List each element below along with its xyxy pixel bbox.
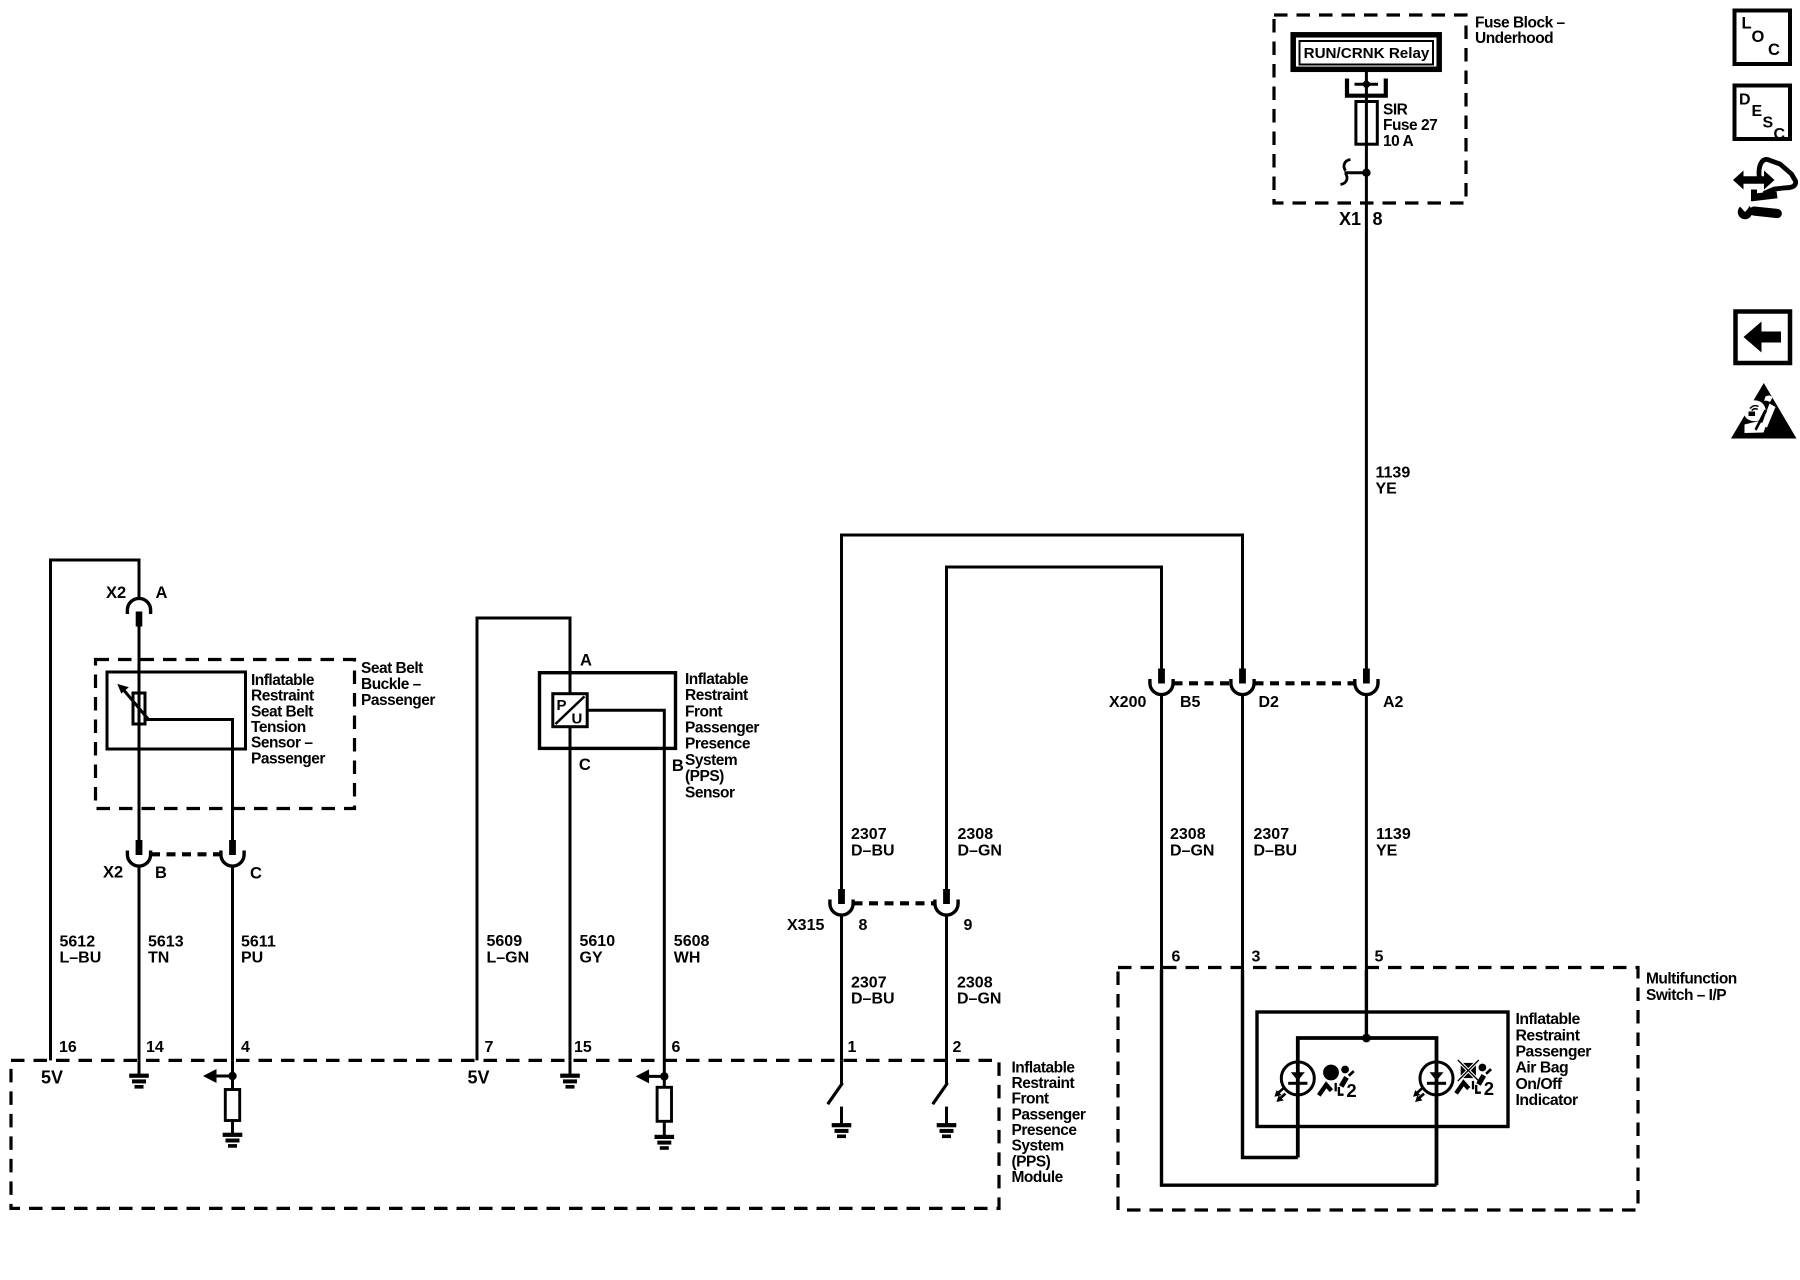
svg-text:On/Off: On/Off [1516,1076,1563,1093]
inline dashed connector line X200 D2-A2 [1255,681,1355,685]
label SIR Fuse 27 10 A [1383,101,1437,150]
svg-text:1139: 1139 [1376,464,1411,481]
label 5610 GY [580,933,616,967]
svg-text:3: 3 [1252,949,1261,966]
label 1139 YE upper [1376,464,1411,497]
svg-text:Restraint: Restraint [685,687,748,704]
svg-text:5610: 5610 [580,933,616,950]
wire 2308 D-GN from X315 9 to module pin 2 [945,915,948,1060]
fuse block - underhood dashed box [1274,15,1466,203]
svg-text:P: P [557,697,567,714]
label Fuse Block - Underhood [1475,15,1565,48]
airbag on icon [1319,1065,1357,1102]
svg-text:L–BU: L–BU [60,950,102,967]
svg-text:Fuse Block –: Fuse Block – [1475,15,1565,32]
svg-text:D–BU: D–BU [1254,843,1298,860]
svg-text:B5: B5 [1180,694,1201,711]
variable resistor (seat belt tension sensor) [117,684,148,724]
indicator box [1257,1012,1508,1127]
svg-text:Fuse 27: Fuse 27 [1383,117,1437,134]
svg-text:7: 7 [485,1039,494,1056]
wire 5613 TN from X2 B to module pin 14 [138,866,141,1060]
svg-text:Tension: Tension [251,719,306,736]
junction at fuse output [1362,169,1370,177]
ground at module pin 2 [937,1123,957,1138]
wire 5608 WH from P/U to module pin 6 [587,710,664,1060]
multifunction switch dashed box [1118,968,1638,1211]
switch to ground at module pin 1 [828,1060,843,1123]
fuse F27 (SIR Fuse 27 10A) [1356,102,1377,145]
svg-text:Seat Belt: Seat Belt [251,703,313,720]
svg-text:B: B [672,757,684,775]
svg-text:D–GN: D–GN [957,991,1001,1008]
wire 2307 D-BU from X315 8 up and over to X200 D2 [842,535,1243,889]
label 2307 D-BU below X315 [851,975,895,1008]
svg-text:Passenger: Passenger [1516,1044,1592,1061]
svg-text:Restraint: Restraint [1516,1027,1581,1044]
wire 5612 L-BU from module pin 16 up to X2 A [51,560,140,1060]
wire pin 6 to indicator lamp 2 [1162,970,1437,1185]
svg-text:2307: 2307 [851,975,887,992]
wire pin 3 to indicator lamp 1 [1243,970,1298,1158]
svg-text:D–BU: D–BU [851,991,895,1008]
svg-text:14: 14 [146,1039,164,1056]
label X1 8 [1339,209,1383,229]
svg-text:8: 8 [1373,209,1383,229]
svg-text:Passenger: Passenger [1012,1106,1086,1123]
icon DESC box [1735,86,1791,144]
svg-text:Inflatable: Inflatable [1516,1011,1581,1028]
svg-text:System: System [1012,1138,1064,1155]
svg-text:6: 6 [1172,949,1181,966]
svg-text:1139: 1139 [1376,826,1411,843]
svg-text:PU: PU [241,950,263,967]
connector X2 B [127,840,150,866]
svg-text:D–GN: D–GN [1170,843,1214,860]
svg-text:X315: X315 [787,917,824,934]
fuse clip holder [1347,79,1386,96]
svg-text:TN: TN [148,950,169,967]
inline dashed connector line X315 8-9 [854,901,936,905]
label 2308 D-GN at B5 [1170,826,1214,860]
svg-text:Seat Belt: Seat Belt [361,660,423,677]
inline dashed connector line X2 B-C [151,852,221,856]
svg-text:(PPS): (PPS) [1012,1153,1051,1170]
switch to ground at module pin 2 [933,1060,948,1123]
wire from X2 A into tension sensor [138,627,141,841]
svg-text:10 A: 10 A [1383,133,1413,150]
ground below resistor pin 6 [663,1121,666,1135]
connector X2 C [221,840,244,866]
wire 2307 D-BU from X315 8 to module pin 1 [840,915,843,1060]
svg-text:Passenger: Passenger [685,720,759,737]
svg-text:RUN/CRNK Relay: RUN/CRNK Relay [1304,45,1430,62]
connector X200 D2 [1231,669,1254,695]
svg-text:GY: GY [580,950,603,967]
ground below resistor pin 4 [231,1121,234,1134]
svg-text:(PPS): (PPS) [685,768,724,785]
svg-text:Air Bag: Air Bag [1516,1060,1569,1077]
svg-text:WH: WH [674,950,701,967]
svg-text:X1: X1 [1339,209,1361,229]
svg-text:System: System [685,752,737,769]
resistor at pin 6 [657,1087,671,1121]
svg-text:6: 6 [672,1039,681,1056]
svg-text:X2: X2 [103,864,123,882]
label X315 8 9 [787,917,973,934]
svg-text:2308: 2308 [958,826,994,843]
svg-text:L–GN: L–GN [487,950,530,967]
label X2 B C [103,864,262,883]
svg-text:C: C [1768,41,1780,59]
bus tap hook [1341,160,1367,185]
tension sensor box [107,672,246,749]
pressure sensor symbol P/U [553,694,587,728]
label 5611 PU [241,934,276,967]
svg-text:B: B [155,864,167,882]
svg-text:A: A [580,652,592,670]
icon back arrow box [1736,312,1791,364]
svg-text:D–BU: D–BU [851,843,895,860]
label 5612 L-BU [60,934,102,967]
connector X315 8 [830,889,853,915]
wire through PPS sensor [569,673,572,1061]
svg-text:2307: 2307 [851,826,887,843]
svg-text:E: E [1752,103,1763,120]
wire fuse to X1 pin 8 [1365,144,1368,203]
svg-text:Front: Front [685,703,722,720]
svg-text:C: C [1774,126,1786,143]
seat belt buckle dashed box [96,660,355,809]
icon adjust (double arrow, glove and wrench) [1733,159,1796,219]
svg-text:A2: A2 [1383,694,1404,711]
wire relay to fuse [1365,72,1368,102]
LED indicator lamp 2 (off) [1413,1062,1453,1102]
relay K (RUN/CRNK Relay) [1293,35,1439,70]
label X200 B5 D2 A2 [1109,694,1404,711]
svg-text:A: A [156,584,168,602]
svg-text:Switch – I/P: Switch – I/P [1646,987,1726,1004]
wire 5609 L-GN from module pin 7 up to PPS sensor A [477,618,570,1060]
svg-text:5: 5 [1375,949,1384,966]
svg-text:YE: YE [1376,480,1398,497]
icon LOC box [1735,11,1791,65]
svg-text:5611: 5611 [241,934,276,951]
ground at module pin 14 [138,1060,141,1074]
svg-text:O: O [1752,28,1765,46]
junction at pin 5 bus [1362,1034,1371,1043]
svg-text:C: C [250,865,262,883]
label 1139 YE at A2 [1376,826,1411,860]
svg-text:Sensor: Sensor [685,784,735,801]
svg-text:D–GN: D–GN [958,843,1002,860]
wire 1139 YE from X200 A2 to switch pin 5 [1365,695,1368,970]
ground at module pin 1 [832,1123,852,1138]
svg-text:2307: 2307 [1254,826,1290,843]
svg-text:4: 4 [241,1039,250,1056]
svg-text:5609: 5609 [487,933,523,950]
svg-text:2308: 2308 [957,975,993,992]
svg-text:8: 8 [859,917,868,934]
label 5609 L-GN [487,933,530,967]
svg-text:5612: 5612 [60,934,96,951]
svg-text:Presence: Presence [1012,1122,1078,1139]
PPS sensor box [540,673,676,749]
svg-text:Passenger: Passenger [251,750,325,767]
svg-text:Inflatable: Inflatable [685,671,749,688]
wire 2308 D-GN from X200 B5 to switch pin 6 [1160,695,1163,970]
svg-text:Sensor –: Sensor – [251,735,313,752]
svg-text:U: U [572,710,583,727]
svg-text:Inflatable: Inflatable [1012,1059,1076,1076]
connector X315 9 [935,889,958,915]
icon airbag warning triangle [1731,383,1797,439]
inline dashed connector line X200 B5-D2 [1174,681,1232,685]
resistor at pin 4 [225,1090,239,1121]
wire 1139 YE from fuse block to X200 A2 [1365,203,1368,669]
svg-text:Multifunction: Multifunction [1646,970,1737,987]
svg-text:Passenger: Passenger [361,692,435,709]
svg-text:L: L [1742,15,1752,33]
svg-text:15: 15 [574,1039,592,1056]
label 5613 TN [148,934,184,967]
svg-text:X2: X2 [106,584,126,602]
svg-text:Indicator: Indicator [1516,1092,1579,1109]
label 2308 D-GN above X315 [958,826,1002,860]
connector X2 A [127,598,150,626]
wire wiper to X2 C [145,720,233,841]
svg-text:YE: YE [1376,843,1398,860]
svg-text:9: 9 [964,917,973,934]
wire pin 5 to indicator bus [1365,970,1368,1038]
svg-text:SIR: SIR [1383,101,1408,118]
wire 5611 PU from X2 C to module pin 4 [231,866,234,1060]
wire 2308 D-GN from X315 9 up and over to X200 B5 [947,567,1162,889]
svg-text:D2: D2 [1259,694,1280,711]
svg-text:Inflatable: Inflatable [251,672,315,689]
svg-text:Restraint: Restraint [251,688,314,705]
label X2 A [106,584,168,602]
PPS module dashed box [11,1060,999,1208]
ground at module pin 15 [569,1060,572,1074]
svg-text:16: 16 [59,1039,77,1056]
label 2307 D-BU above X315 [851,826,895,860]
svg-text:Buckle –: Buckle – [361,676,422,693]
label Multifunction Switch - I/P [1646,970,1737,1004]
svg-text:S: S [1763,115,1774,132]
connector X200 B5 [1150,669,1173,695]
svg-text:2308: 2308 [1170,826,1206,843]
connector X200 A2 [1355,669,1378,695]
svg-text:5V: 5V [468,1068,490,1088]
svg-text:C: C [579,756,591,774]
svg-text:X200: X200 [1109,694,1146,711]
label 5608 WH [674,933,710,967]
svg-text:Front: Front [1012,1091,1049,1108]
svg-text:2: 2 [1346,1080,1356,1101]
indicator bus wire [1298,1038,1437,1185]
svg-text:2: 2 [953,1039,962,1056]
svg-text:D: D [1739,92,1751,109]
svg-text:5608: 5608 [674,933,710,950]
svg-text:Module: Module [1012,1169,1064,1186]
junction at module pin 6 [660,1060,668,1087]
airbag off icon [1456,1060,1494,1099]
svg-text:Underhood: Underhood [1475,30,1553,47]
label 2307 D-BU at D2 [1254,826,1298,860]
current arrow at pin 4 [203,1069,233,1083]
svg-text:2: 2 [1484,1078,1494,1099]
svg-text:Presence: Presence [685,736,751,753]
svg-text:Restraint: Restraint [1012,1075,1075,1092]
LED indicator lamp 1 (on) [1274,1062,1314,1102]
svg-text:1: 1 [848,1039,857,1056]
svg-text:5613: 5613 [148,934,184,951]
wire 2307 D-BU from X200 D2 to switch pin 3 [1241,695,1244,970]
current arrow at pin 6 [636,1069,665,1083]
junction at module pin 4 [228,1060,236,1089]
label 2308 D-GN below X315 [957,975,1001,1008]
svg-text:5V: 5V [41,1068,63,1088]
